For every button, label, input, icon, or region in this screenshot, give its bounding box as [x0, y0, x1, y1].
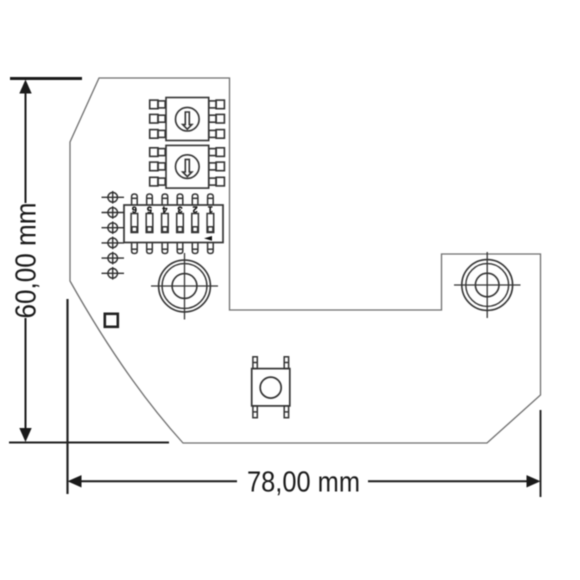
- DIP switch S1 body: [124, 205, 223, 243]
- DIP switch S1 position numbers 6-1 (rotated 180): [132, 205, 213, 215]
- pushbutton SW1 legs: [253, 357, 289, 418]
- pad hole 1: [102, 191, 125, 204]
- board outline: [70, 78, 541, 443]
- mounting hole right: [454, 252, 521, 318]
- dimension extension line left (78 mm left): [66, 299, 68, 494]
- dimension extension line bottom (60 mm bottom): [9, 442, 169, 444]
- trimmer P2 pins right: [209, 148, 225, 186]
- DIP switch S1 top pins: [132, 194, 214, 205]
- trimmer P1 pins right: [209, 100, 225, 138]
- DIP switch S1 bottom pins: [132, 243, 214, 254]
- dimension label 78,00 mm: [247, 467, 360, 499]
- pad hole 2: [102, 206, 125, 219]
- trimmer P2 pins left: [150, 148, 166, 186]
- trimmer potentiometer P1 body: [166, 98, 209, 141]
- dimension line 78 mm horizontal with arrows: [68, 475, 541, 487]
- DIP switch S1 sliders: [131, 214, 214, 233]
- dimension line 60 mm vertical with arrows: [19, 80, 31, 443]
- DIP switch S1 ON arrow mark: [204, 236, 212, 241]
- pad hole 6: [102, 267, 125, 280]
- dimension extension line right (78 mm right): [540, 410, 542, 497]
- small SMD square component: [105, 314, 118, 327]
- trimmer P1 pins left: [150, 100, 166, 138]
- trimmer potentiometer P2 body: [166, 145, 209, 188]
- dimension label 60,00 mm: [11, 203, 43, 319]
- svg-text:78,00 mm: 78,00 mm: [247, 467, 360, 499]
- pad hole 4: [102, 237, 125, 250]
- dimension extension line top-left (60 mm top): [10, 77, 82, 80]
- pushbutton SW1 body: [252, 369, 290, 406]
- pad hole 5: [102, 252, 125, 265]
- pad hole 3: [102, 221, 125, 234]
- mounting hole left: [151, 253, 218, 320]
- svg-text:60,00 mm: 60,00 mm: [11, 203, 43, 319]
